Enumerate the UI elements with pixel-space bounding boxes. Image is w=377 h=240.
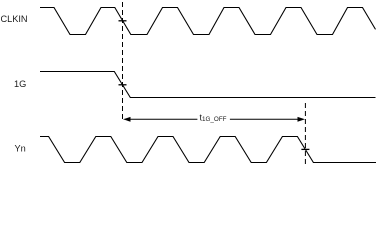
- signal 1G: [40, 72, 376, 98]
- dimension line left segment: [129, 118, 197, 120]
- tick mark 1G crossing: [119, 84, 127, 86]
- svg-text:Yn: Yn: [15, 144, 26, 154]
- arrowhead right: [298, 117, 306, 122]
- tick mark CLKIN crossing: [119, 20, 127, 22]
- svg-text:CLKIN: CLKIN: [1, 14, 28, 24]
- tick mark Yn crossing: [301, 148, 309, 150]
- arrowhead left: [123, 117, 131, 122]
- dashed reference line 1: [122, 2, 124, 122]
- waveform CLKIN: [40, 8, 376, 35]
- dashed reference line 2: [304, 103, 306, 164]
- waveform Yn: [40, 137, 376, 163]
- dimension line right segment: [230, 118, 299, 120]
- svg-text:1G: 1G: [14, 79, 26, 89]
